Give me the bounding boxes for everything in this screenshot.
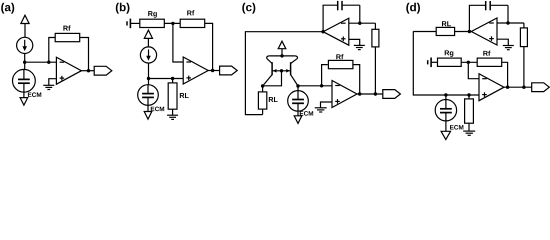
- supply arrow V- (d): [441, 131, 450, 139]
- junction output-R node (c): [374, 92, 377, 95]
- ground at U2 + (c): [315, 107, 327, 109]
- wire node to inverting input (d): [468, 62, 479, 78]
- wire Rg to Rf (b): [164, 22, 180, 24]
- wire Rf to output riser (a): [80, 38, 89, 71]
- wire cap to inverting node (c): [359, 5, 361, 23]
- wire ECM top stub (d): [445, 95, 447, 100]
- gate line Q1-Q2 (c): [272, 70, 291, 72]
- wire source node to U2 inverting (c): [298, 85, 332, 87]
- wire gate down-left to RL (c): [263, 71, 282, 86]
- wire ECM to V- arrow (d): [445, 121, 447, 131]
- wire RL top to source node (c): [262, 86, 264, 92]
- transistor Q1 drain lead (c): [267, 58, 273, 63]
- wire cap to inverting node (d): [507, 5, 509, 23]
- drain rail (c): [269, 55, 295, 57]
- wire non-inverting input to ground (a): [49, 79, 57, 86]
- output port (a): [94, 66, 112, 75]
- wire loop left riser and bottom rail (d): [413, 31, 479, 95]
- supply arrow V- (c): [294, 116, 302, 124]
- junction U1 output node (d): [468, 30, 471, 33]
- wire U1 inverting input row (d): [497, 22, 524, 24]
- supply arrow V- (b): [144, 112, 152, 120]
- resistor feedback R (c): [372, 29, 379, 47]
- resistor feedback R (d): [520, 28, 527, 47]
- junction output-R node (d): [522, 86, 525, 89]
- transistor Q1 source lead (c): [263, 75, 273, 86]
- transistor Q1 channel bar (c): [271, 62, 273, 75]
- wire loop top left (d): [413, 31, 436, 33]
- junction cap-minus node (d): [506, 21, 509, 24]
- junction ECM top (d): [444, 93, 447, 96]
- gate arrow into Q2 (c): [286, 69, 290, 73]
- wire RL to ground (b): [172, 109, 174, 115]
- wire ECM to V- arrow (b): [147, 105, 149, 111]
- junction node B (b): [147, 77, 150, 80]
- junction drain rail (c): [280, 54, 283, 57]
- op-amp U1 integrator (d): [471, 18, 497, 45]
- input port symbol (d): [427, 60, 429, 64]
- wire Rf to output riser (d): [502, 62, 508, 87]
- output port (d): [532, 83, 550, 92]
- output port (b): [220, 66, 238, 75]
- wire U2 + input to ground (c): [321, 102, 333, 108]
- resistor Rg (d): [438, 58, 462, 66]
- wire minus node to R riser (d): [523, 23, 525, 28]
- transistor Q2 drain lead (c): [291, 58, 298, 63]
- junction output-Rf node (d): [506, 86, 509, 89]
- resistor RL (b): [168, 83, 177, 109]
- capacitor C1 feedback (c): [337, 4, 339, 6]
- wire node to inverting input (b): [173, 23, 183, 62]
- junction gate node (c): [280, 69, 283, 72]
- ground at U1 + (d): [503, 45, 514, 47]
- op-amp U1 (a): [56, 57, 81, 84]
- op-amp U1 integrator (c): [323, 18, 349, 45]
- junction output feedback (b): [211, 69, 214, 72]
- wire U1 inverting input row (c): [349, 22, 376, 24]
- junction ECM top node (c): [296, 84, 299, 87]
- wire ECM to V- arrow (a): [23, 92, 25, 97]
- electret microphone ECM (a): [13, 69, 36, 92]
- panel label (d): [406, 3, 420, 14]
- wire feedback left riser (a): [49, 38, 55, 63]
- junction RL-source node (c): [261, 84, 264, 87]
- supply arrow V+ (c): [278, 41, 286, 49]
- wire minus node to R riser (c): [374, 23, 376, 29]
- junction RL top (b): [171, 77, 174, 80]
- current source (a): [17, 37, 33, 53]
- wire U1 output to cap (c): [323, 5, 338, 32]
- wire node B to non-inverting input (b): [149, 78, 184, 80]
- resistor Rf (c): [328, 60, 353, 68]
- electret capsule ECM (c): [288, 91, 309, 112]
- wire ECM top stub (c): [297, 86, 299, 91]
- resistor R2 (d): [465, 99, 474, 123]
- wire node A to ECM (a): [24, 62, 26, 69]
- junction output feedback (a): [87, 69, 90, 72]
- wire ECM to V- arrow (c): [297, 111, 299, 116]
- ground below R2 (d): [463, 130, 475, 132]
- supply arrow V- (a): [20, 98, 28, 106]
- junction U2 feedback node (c): [320, 84, 323, 87]
- capacitor C1 feedback (d): [485, 4, 487, 6]
- wire R2 top stub (d): [468, 95, 470, 99]
- junction cap-minus node (c): [358, 22, 361, 25]
- wire node B to ECM (b): [148, 79, 150, 85]
- wire port to Rg (d): [432, 61, 438, 63]
- electret microphone ECM (d): [435, 100, 456, 121]
- electret microphone ECM (b): [138, 85, 159, 106]
- wire supply to current source (b): [147, 38, 149, 47]
- output port (c): [383, 90, 401, 99]
- supply arrow V+ (a): [21, 15, 29, 23]
- wire supply to current source (a): [24, 24, 26, 38]
- wire op-amp output (a): [81, 70, 94, 72]
- transistor Q2 source lead (c): [291, 75, 298, 86]
- resistor Rg (b): [140, 19, 165, 27]
- wire RL top stub (b): [172, 79, 174, 83]
- wire current source to node B (b): [148, 63, 150, 78]
- resistor Rf (b): [180, 19, 205, 27]
- panel label (c): [242, 3, 255, 14]
- gate arrow into Q1 (c): [273, 69, 277, 73]
- junction node A (a): [23, 61, 26, 64]
- input port symbol (b): [126, 21, 128, 25]
- panel label (b): [116, 3, 130, 14]
- junction Rg-Rf node (d): [467, 61, 470, 64]
- op-amp U2 (c): [332, 81, 357, 108]
- junction inverting node (a): [47, 61, 50, 64]
- wire U1 + input to ground (d): [497, 39, 508, 45]
- resistor RL (c): [258, 92, 266, 109]
- wire supply to drain rail (c): [281, 49, 283, 56]
- current source (b): [140, 47, 156, 63]
- op-amp U1 (b): [183, 57, 208, 84]
- wire U1 output loop left-down-right (c): [245, 32, 323, 115]
- wire U2 output (d): [504, 86, 532, 88]
- wire R to output row (c): [374, 47, 376, 94]
- wire Rf to output riser (c): [353, 65, 359, 94]
- op-amp U2 (d): [479, 74, 504, 101]
- junction output-Rf node (c): [358, 92, 361, 95]
- wire RL to U1 output (d): [455, 31, 472, 33]
- resistor Rf (a): [55, 33, 79, 41]
- wire R to output row (d): [523, 47, 525, 88]
- wire U1 + input to ground (c): [349, 39, 360, 45]
- wire U1 output to cap (d): [469, 5, 485, 31]
- wire port to Rg (b): [131, 22, 140, 24]
- wire R2 to ground (d): [468, 123, 470, 131]
- wire loop to RL bottom (c): [262, 109, 264, 115]
- wire node A to inverting input (a): [25, 61, 57, 63]
- ground at U1 + (c): [354, 44, 365, 46]
- junction Rg-Rf node (b): [171, 22, 174, 25]
- supply arrow V+ (b): [144, 30, 152, 38]
- ground at op-amp + (a): [43, 84, 54, 86]
- wire Rf to output riser (b): [205, 23, 213, 70]
- ground below RL (b): [167, 114, 178, 116]
- junction R2 top (d): [467, 93, 470, 96]
- wire Rg to Rf (d): [461, 61, 477, 63]
- wire U2 output (c): [357, 93, 383, 95]
- resistor Rf (d): [477, 58, 502, 66]
- panel label (a): [1, 3, 14, 14]
- wire feedback riser to Rf (c): [322, 65, 328, 86]
- transistor Q2 channel bar (c): [290, 62, 292, 75]
- wire op-amp output (b): [208, 70, 219, 72]
- wire current source to node A (a): [24, 54, 26, 63]
- junction U1 output node (c): [321, 30, 324, 33]
- resistor RL (d): [436, 27, 454, 35]
